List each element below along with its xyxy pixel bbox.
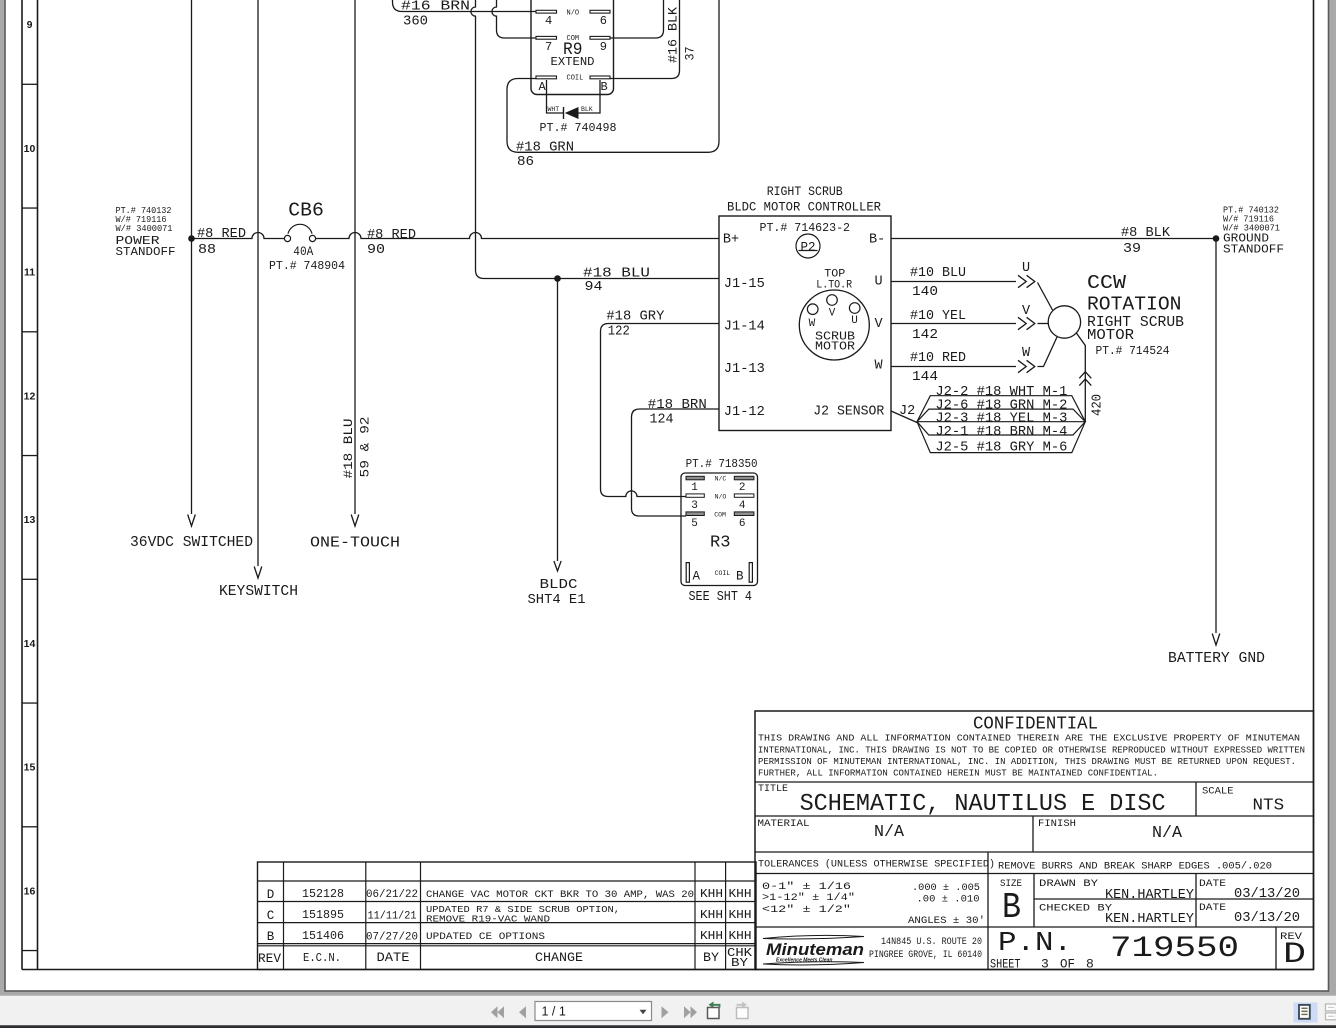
svg-text:>1-12" ± 1/4": >1-12" ± 1/4" (762, 892, 855, 904)
svg-text:#16 BRN: #16 BRN (401, 0, 470, 15)
svg-text:RIGHT SCRUB: RIGHT SCRUB (767, 185, 843, 199)
svg-text:KHH: KHH (729, 887, 752, 901)
svg-text:SCHEMATIC, NAUTILUS E DISC: SCHEMATIC, NAUTILUS E DISC (800, 791, 1166, 818)
svg-text:J1-15: J1-15 (724, 277, 765, 292)
svg-text:16: 16 (24, 885, 36, 897)
svg-text:151406: 151406 (302, 929, 344, 943)
svg-text:J2: J2 (899, 404, 915, 419)
svg-text:KHH: KHH (729, 929, 752, 943)
svg-text:V: V (829, 307, 836, 319)
svg-text:COIL: COIL (715, 570, 731, 577)
svg-text:3: 3 (691, 500, 698, 512)
svg-text:A: A (539, 80, 547, 94)
svg-text:BLDC MOTOR CONTROLLER: BLDC MOTOR CONTROLLER (727, 201, 881, 215)
svg-text:MOTOR: MOTOR (1087, 327, 1134, 344)
svg-text:122: 122 (608, 325, 630, 340)
svg-text:#18 BRN: #18 BRN (648, 398, 707, 413)
svg-text:W: W (1022, 346, 1031, 361)
svg-text:12: 12 (24, 390, 36, 402)
svg-text:39: 39 (1123, 242, 1141, 257)
svg-text:14: 14 (24, 638, 36, 650)
svg-text:#18 GRY: #18 GRY (606, 310, 664, 325)
svg-text:J2-1 #18 BRN M-4: J2-1 #18 BRN M-4 (935, 425, 1067, 440)
svg-text:KEN.HARTLEY: KEN.HARTLEY (1105, 912, 1194, 927)
svg-text:11/11/21: 11/11/21 (368, 911, 417, 923)
svg-text:PT.# 714623-2: PT.# 714623-2 (760, 221, 851, 235)
svg-text:#10 RED: #10 RED (910, 351, 966, 366)
svg-text:#18 BLU: #18 BLU (341, 419, 356, 479)
svg-text:37: 37 (683, 47, 698, 61)
svg-text:B-: B- (869, 233, 885, 248)
svg-text:W: W (875, 359, 884, 374)
svg-text:BY: BY (731, 957, 748, 970)
svg-text:E.C.N.: E.C.N. (303, 951, 341, 965)
svg-text:U: U (1022, 261, 1030, 276)
svg-text:9: 9 (27, 19, 33, 31)
svg-text:2: 2 (739, 482, 746, 494)
svg-text:FINISH: FINISH (1038, 818, 1076, 830)
svg-text:D: D (1283, 938, 1306, 972)
svg-text:88: 88 (198, 243, 216, 258)
svg-text:PERMISSION OF MINUTEMAN INTERN: PERMISSION OF MINUTEMAN INTERNATIONAL, I… (758, 756, 1296, 767)
svg-text:TOP: TOP (824, 268, 845, 280)
svg-text:03/13/20: 03/13/20 (1234, 887, 1300, 902)
svg-text:MOTOR: MOTOR (815, 340, 855, 354)
svg-text:BY: BY (703, 951, 720, 965)
svg-text:15: 15 (24, 762, 36, 774)
svg-text:152128: 152128 (302, 887, 344, 901)
svg-text:J2 SENSOR: J2 SENSOR (813, 405, 884, 420)
svg-text:W: W (809, 318, 816, 330)
svg-text:9: 9 (600, 40, 607, 54)
svg-text:STANDOFF: STANDOFF (1223, 244, 1284, 257)
svg-text:03/13/20: 03/13/20 (1234, 911, 1300, 926)
svg-text:CONFIDENTIAL: CONFIDENTIAL (973, 715, 1098, 735)
svg-text:CCW: CCW (1087, 272, 1126, 294)
svg-text:KHH: KHH (700, 887, 723, 901)
svg-text:PT.# 714524: PT.# 714524 (1096, 344, 1170, 358)
svg-text:N/O: N/O (715, 493, 727, 500)
svg-text:PT.# 740498: PT.# 740498 (540, 122, 617, 135)
svg-text:U: U (851, 315, 858, 327)
svg-text:TITLE: TITLE (758, 784, 788, 795)
svg-text:6: 6 (739, 518, 746, 530)
svg-text:REMOVE R19-VAC WAND: REMOVE R19-VAC WAND (426, 914, 550, 925)
svg-text:90: 90 (367, 243, 385, 258)
svg-text:B: B (1002, 887, 1021, 928)
svg-text:R3: R3 (710, 534, 731, 553)
svg-text:V: V (875, 317, 884, 332)
svg-text:N/C: N/C (715, 476, 727, 483)
svg-text:FURTHER, ALL INFORMATION CONTA: FURTHER, ALL INFORMATION CONTAINED HEREI… (758, 767, 1158, 778)
svg-text:P.N.: P.N. (998, 929, 1072, 959)
svg-text:MATERIAL: MATERIAL (758, 818, 810, 830)
svg-text:CHANGE VAC MOTOR CKT BKR TO 30: CHANGE VAC MOTOR CKT BKR TO 30 AMP, WAS … (426, 889, 694, 901)
svg-text:P2: P2 (800, 241, 815, 255)
svg-text:J1-12: J1-12 (724, 405, 765, 420)
svg-text:PINGREE GROVE, IL 60140: PINGREE GROVE, IL 60140 (869, 950, 982, 961)
svg-text:REMOVE BURRS AND BREAK SHARP E: REMOVE BURRS AND BREAK SHARP EDGES .005/… (998, 861, 1272, 873)
svg-text:3: 3 (1041, 957, 1049, 972)
svg-text:DRAWN BY: DRAWN BY (1039, 878, 1099, 890)
svg-text:#8 BLK: #8 BLK (1121, 226, 1171, 241)
svg-text:B: B (736, 570, 744, 584)
svg-text:ONE-TOUCH: ONE-TOUCH (310, 536, 400, 552)
svg-text:5: 5 (691, 518, 698, 530)
svg-text:COIL: COIL (567, 74, 584, 82)
svg-text:WHT: WHT (548, 106, 560, 113)
svg-text:11: 11 (24, 267, 35, 279)
svg-text:BLK: BLK (581, 106, 593, 113)
svg-text:B: B (267, 930, 275, 944)
svg-text:KHH: KHH (729, 908, 752, 922)
svg-text:INTERNATIONAL, INC. THIS DRAWI: INTERNATIONAL, INC. THIS DRAWING IS NOT … (758, 744, 1305, 755)
svg-text:ROTATION: ROTATION (1087, 294, 1182, 316)
svg-text:SHT4 E1: SHT4 E1 (528, 592, 586, 608)
svg-text:N/O: N/O (567, 9, 580, 17)
svg-text:DATE: DATE (1199, 878, 1226, 890)
svg-text:<12" ± 1/2": <12" ± 1/2" (762, 904, 851, 916)
svg-text:#16 BLK: #16 BLK (666, 7, 681, 63)
svg-text:40A: 40A (293, 244, 313, 259)
svg-text:CB6: CB6 (288, 200, 324, 222)
svg-text:7: 7 (545, 40, 552, 54)
svg-text:REV: REV (258, 952, 281, 966)
svg-text:A: A (693, 570, 701, 584)
svg-text:14N845 U.S. ROUTE 20: 14N845 U.S. ROUTE 20 (881, 937, 982, 948)
svg-text:EXTEND: EXTEND (551, 55, 595, 69)
svg-text:4: 4 (739, 500, 746, 512)
svg-text:#10 BLU: #10 BLU (910, 266, 966, 281)
svg-text:07/27/20: 07/27/20 (366, 932, 418, 944)
svg-text:140: 140 (912, 285, 938, 300)
svg-text:94: 94 (585, 280, 603, 295)
svg-text:BATTERY GND: BATTERY GND (1168, 651, 1265, 667)
svg-text:BLDC: BLDC (540, 577, 578, 593)
svg-text:DATE: DATE (377, 951, 410, 965)
svg-text:N/A: N/A (1152, 824, 1183, 843)
svg-text:144: 144 (912, 370, 938, 385)
svg-text:Excellence Meets Clean: Excellence Meets Clean (776, 958, 832, 964)
svg-text:SHEET: SHEET (990, 957, 1021, 972)
svg-text:CHECKED BY: CHECKED BY (1039, 903, 1113, 915)
svg-text:DATE: DATE (1199, 902, 1226, 914)
svg-text:B+: B+ (723, 233, 739, 248)
svg-text:360: 360 (403, 15, 428, 30)
svg-text:10: 10 (24, 143, 36, 155)
svg-text:J2-5 #18 GRY M-6: J2-5 #18 GRY M-6 (935, 441, 1067, 456)
svg-text:36VDC SWITCHED: 36VDC SWITCHED (130, 535, 253, 551)
svg-text:UPDATED CE OPTIONS: UPDATED CE OPTIONS (426, 931, 545, 943)
svg-text:420: 420 (1091, 394, 1106, 416)
svg-text:SCALE: SCALE (1202, 786, 1234, 798)
svg-text:N/A: N/A (874, 823, 905, 842)
svg-text:STANDOFF: STANDOFF (116, 246, 176, 259)
svg-text:13: 13 (24, 514, 36, 526)
svg-text:142: 142 (912, 328, 938, 343)
svg-text:.000 ± .005: .000 ± .005 (912, 882, 980, 894)
svg-text:V: V (1022, 304, 1031, 319)
svg-text:J1-14: J1-14 (724, 320, 765, 335)
svg-text:THIS DRAWING AND ALL INFORMATI: THIS DRAWING AND ALL INFORMATION CONTAIN… (758, 733, 1300, 744)
svg-text:COM: COM (714, 511, 726, 518)
svg-text:#18 GRN: #18 GRN (516, 141, 574, 156)
svg-text:D: D (267, 888, 275, 902)
svg-text:.00 ± .010: .00 ± .010 (917, 894, 980, 906)
svg-text:8: 8 (1086, 957, 1094, 972)
svg-text:59 & 92: 59 & 92 (358, 417, 373, 478)
svg-text:B: B (601, 80, 608, 94)
svg-text:CHANGE: CHANGE (535, 950, 583, 965)
svg-text:1 / 1: 1 / 1 (542, 1005, 566, 1019)
svg-text:#8 RED: #8 RED (367, 228, 416, 243)
svg-text:ANGLES ± 30': ANGLES ± 30' (908, 915, 985, 927)
svg-text:124: 124 (650, 412, 674, 427)
svg-text:C: C (267, 909, 275, 923)
svg-text:Minuteman: Minuteman (766, 941, 864, 959)
svg-text:U: U (875, 275, 883, 290)
svg-text:#10 YEL: #10 YEL (910, 309, 966, 324)
svg-text:PT.# 718350: PT.# 718350 (686, 458, 758, 471)
svg-text:TOLERANCES (UNLESS OTHERWISE S: TOLERANCES (UNLESS OTHERWISE SPECIFIED) (758, 859, 995, 871)
svg-text:PT.# 748904: PT.# 748904 (269, 260, 345, 273)
svg-text:1: 1 (691, 482, 698, 494)
svg-text:151895: 151895 (302, 908, 344, 922)
svg-text:NTS: NTS (1253, 797, 1285, 816)
svg-text:06/21/22: 06/21/22 (366, 889, 418, 901)
svg-text:W/# 3400071: W/# 3400071 (116, 224, 173, 234)
svg-text:OF: OF (1060, 957, 1075, 972)
svg-text:86: 86 (517, 155, 534, 170)
svg-text:4: 4 (545, 14, 552, 28)
svg-text:KHH: KHH (700, 908, 723, 922)
svg-text:KHH: KHH (700, 929, 723, 943)
svg-text:KEYSWITCH: KEYSWITCH (219, 584, 298, 600)
svg-text:SEE SHT 4: SEE SHT 4 (689, 590, 753, 605)
svg-text:KEN.HARTLEY: KEN.HARTLEY (1105, 888, 1194, 903)
svg-text:#8 RED: #8 RED (197, 227, 246, 242)
svg-text:6: 6 (600, 14, 607, 28)
svg-text:719550: 719550 (1110, 932, 1239, 966)
svg-text:J1-13: J1-13 (724, 362, 765, 377)
